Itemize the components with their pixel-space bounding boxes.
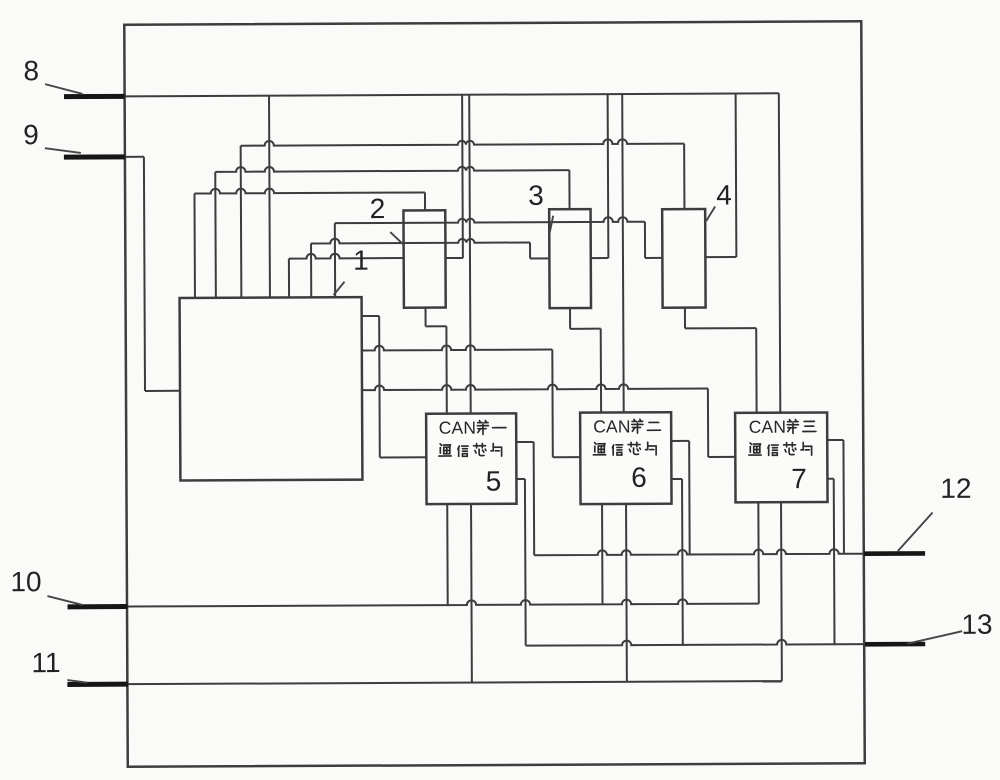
wire box1 to box4 top (row y145): [241, 139, 685, 146]
wire net8 drop to box7 top: [779, 93, 781, 412]
wire box6 lower stub to bus13: [671, 478, 682, 480]
net10 bus: [127, 599, 759, 607]
main control chip box 1 (MCU): [180, 297, 363, 480]
leader for label 1: [333, 282, 344, 295]
svg-text:5: 5: [486, 465, 502, 496]
CAN chip box 5: [426, 413, 516, 504]
terminal 12 thick lead: [864, 551, 925, 556]
wire box7 upper stub to bus12: [827, 439, 843, 441]
leader for label 13: [907, 631, 962, 643]
isolator box 4: [662, 209, 705, 308]
wire box5 lower stub to bus13: [516, 478, 524, 480]
wire box1 right stub to box5 left: [362, 315, 379, 317]
leader for label 9: [45, 148, 81, 153]
svg-text:CAN: CAN: [593, 416, 631, 436]
svg-text:13: 13: [961, 609, 992, 640]
wire box1 to box2 top (row y192): [194, 188, 425, 194]
svg-text:1: 1: [353, 245, 369, 276]
wire box1 to box3 top (row y171): [215, 166, 569, 172]
svg-text:7: 7: [791, 463, 807, 494]
net11 bus: [127, 681, 781, 684]
wire box5 upper stub to bus12: [516, 441, 533, 443]
bus to terminal 12: [534, 549, 864, 555]
svg-text:6: 6: [631, 462, 647, 493]
bus to terminal 13: [526, 639, 865, 645]
svg-text:CAN: CAN: [439, 418, 477, 438]
wire box1 right to box6 left: [362, 345, 553, 350]
wire net8 horizontal bus: [125, 93, 779, 96]
wire net8 branch to box3 right stub: [607, 94, 610, 258]
CAN chip box 7: [735, 412, 827, 502]
leader for label 12: [898, 512, 933, 551]
svg-text:2: 2: [370, 193, 386, 224]
wire box7 pin to net11: [780, 502, 783, 681]
leader for label 11: [67, 680, 87, 683]
wire box6 pin to net10: [601, 504, 603, 604]
outer border frame: [124, 21, 864, 766]
wire net8 branch to box6 top: [622, 94, 624, 412]
svg-text:12: 12: [940, 473, 971, 504]
wire box5 pin to net11: [470, 504, 473, 683]
leader for label 8: [45, 84, 83, 94]
wire box4 bottom to box7 top: [684, 308, 686, 329]
svg-text:4: 4: [716, 179, 732, 210]
leader for label 3: [549, 216, 553, 235]
terminal 9 thick lead: [64, 154, 125, 159]
wire box6 pin to net11: [625, 504, 628, 682]
wire box7 lower stub to bus13: [827, 478, 833, 480]
wire terminal9 entry: [125, 156, 144, 158]
wire box5 pin to net10: [446, 504, 448, 605]
wire box2 bottom to box5 top: [425, 308, 427, 327]
svg-text:CAN: CAN: [749, 417, 787, 437]
terminal 8 thick lead: [64, 94, 125, 99]
wire net8 branch to box4 right stub: [735, 93, 738, 256]
svg-text:8: 8: [23, 55, 39, 86]
leader for label 10: [47, 596, 82, 605]
wire box1 to box4 left (row y222): [335, 217, 645, 223]
wire net8 branch down to box1 top: [268, 96, 271, 298]
CAN chip box 6: [580, 412, 671, 504]
svg-text:9: 9: [23, 119, 39, 150]
wire box7 pin to net10: [757, 502, 759, 603]
svg-text:11: 11: [31, 647, 60, 678]
svg-text:3: 3: [528, 180, 544, 211]
wire box1 to box3 left (row y243): [311, 238, 530, 244]
wire box3 bottom to box6 top: [569, 308, 571, 329]
terminal 11 thick lead: [67, 682, 127, 687]
isolator box 3: [549, 209, 591, 308]
leader for label 2: [390, 232, 403, 245]
wire box6 upper stub to bus12: [671, 440, 689, 442]
terminal 13 thick lead: [865, 642, 925, 647]
wire box1 to box2 left (row y258): [289, 253, 404, 258]
svg-text:10: 10: [10, 566, 41, 597]
wire net8 branch to box2 right stub: [461, 95, 464, 258]
terminal 10 thick lead: [68, 604, 128, 609]
isolator box 2: [403, 210, 445, 307]
leader for label 4: [706, 206, 715, 221]
wire net8 branch to box5 top: [469, 95, 471, 414]
wire box1 right to box7 left: [362, 384, 708, 390]
